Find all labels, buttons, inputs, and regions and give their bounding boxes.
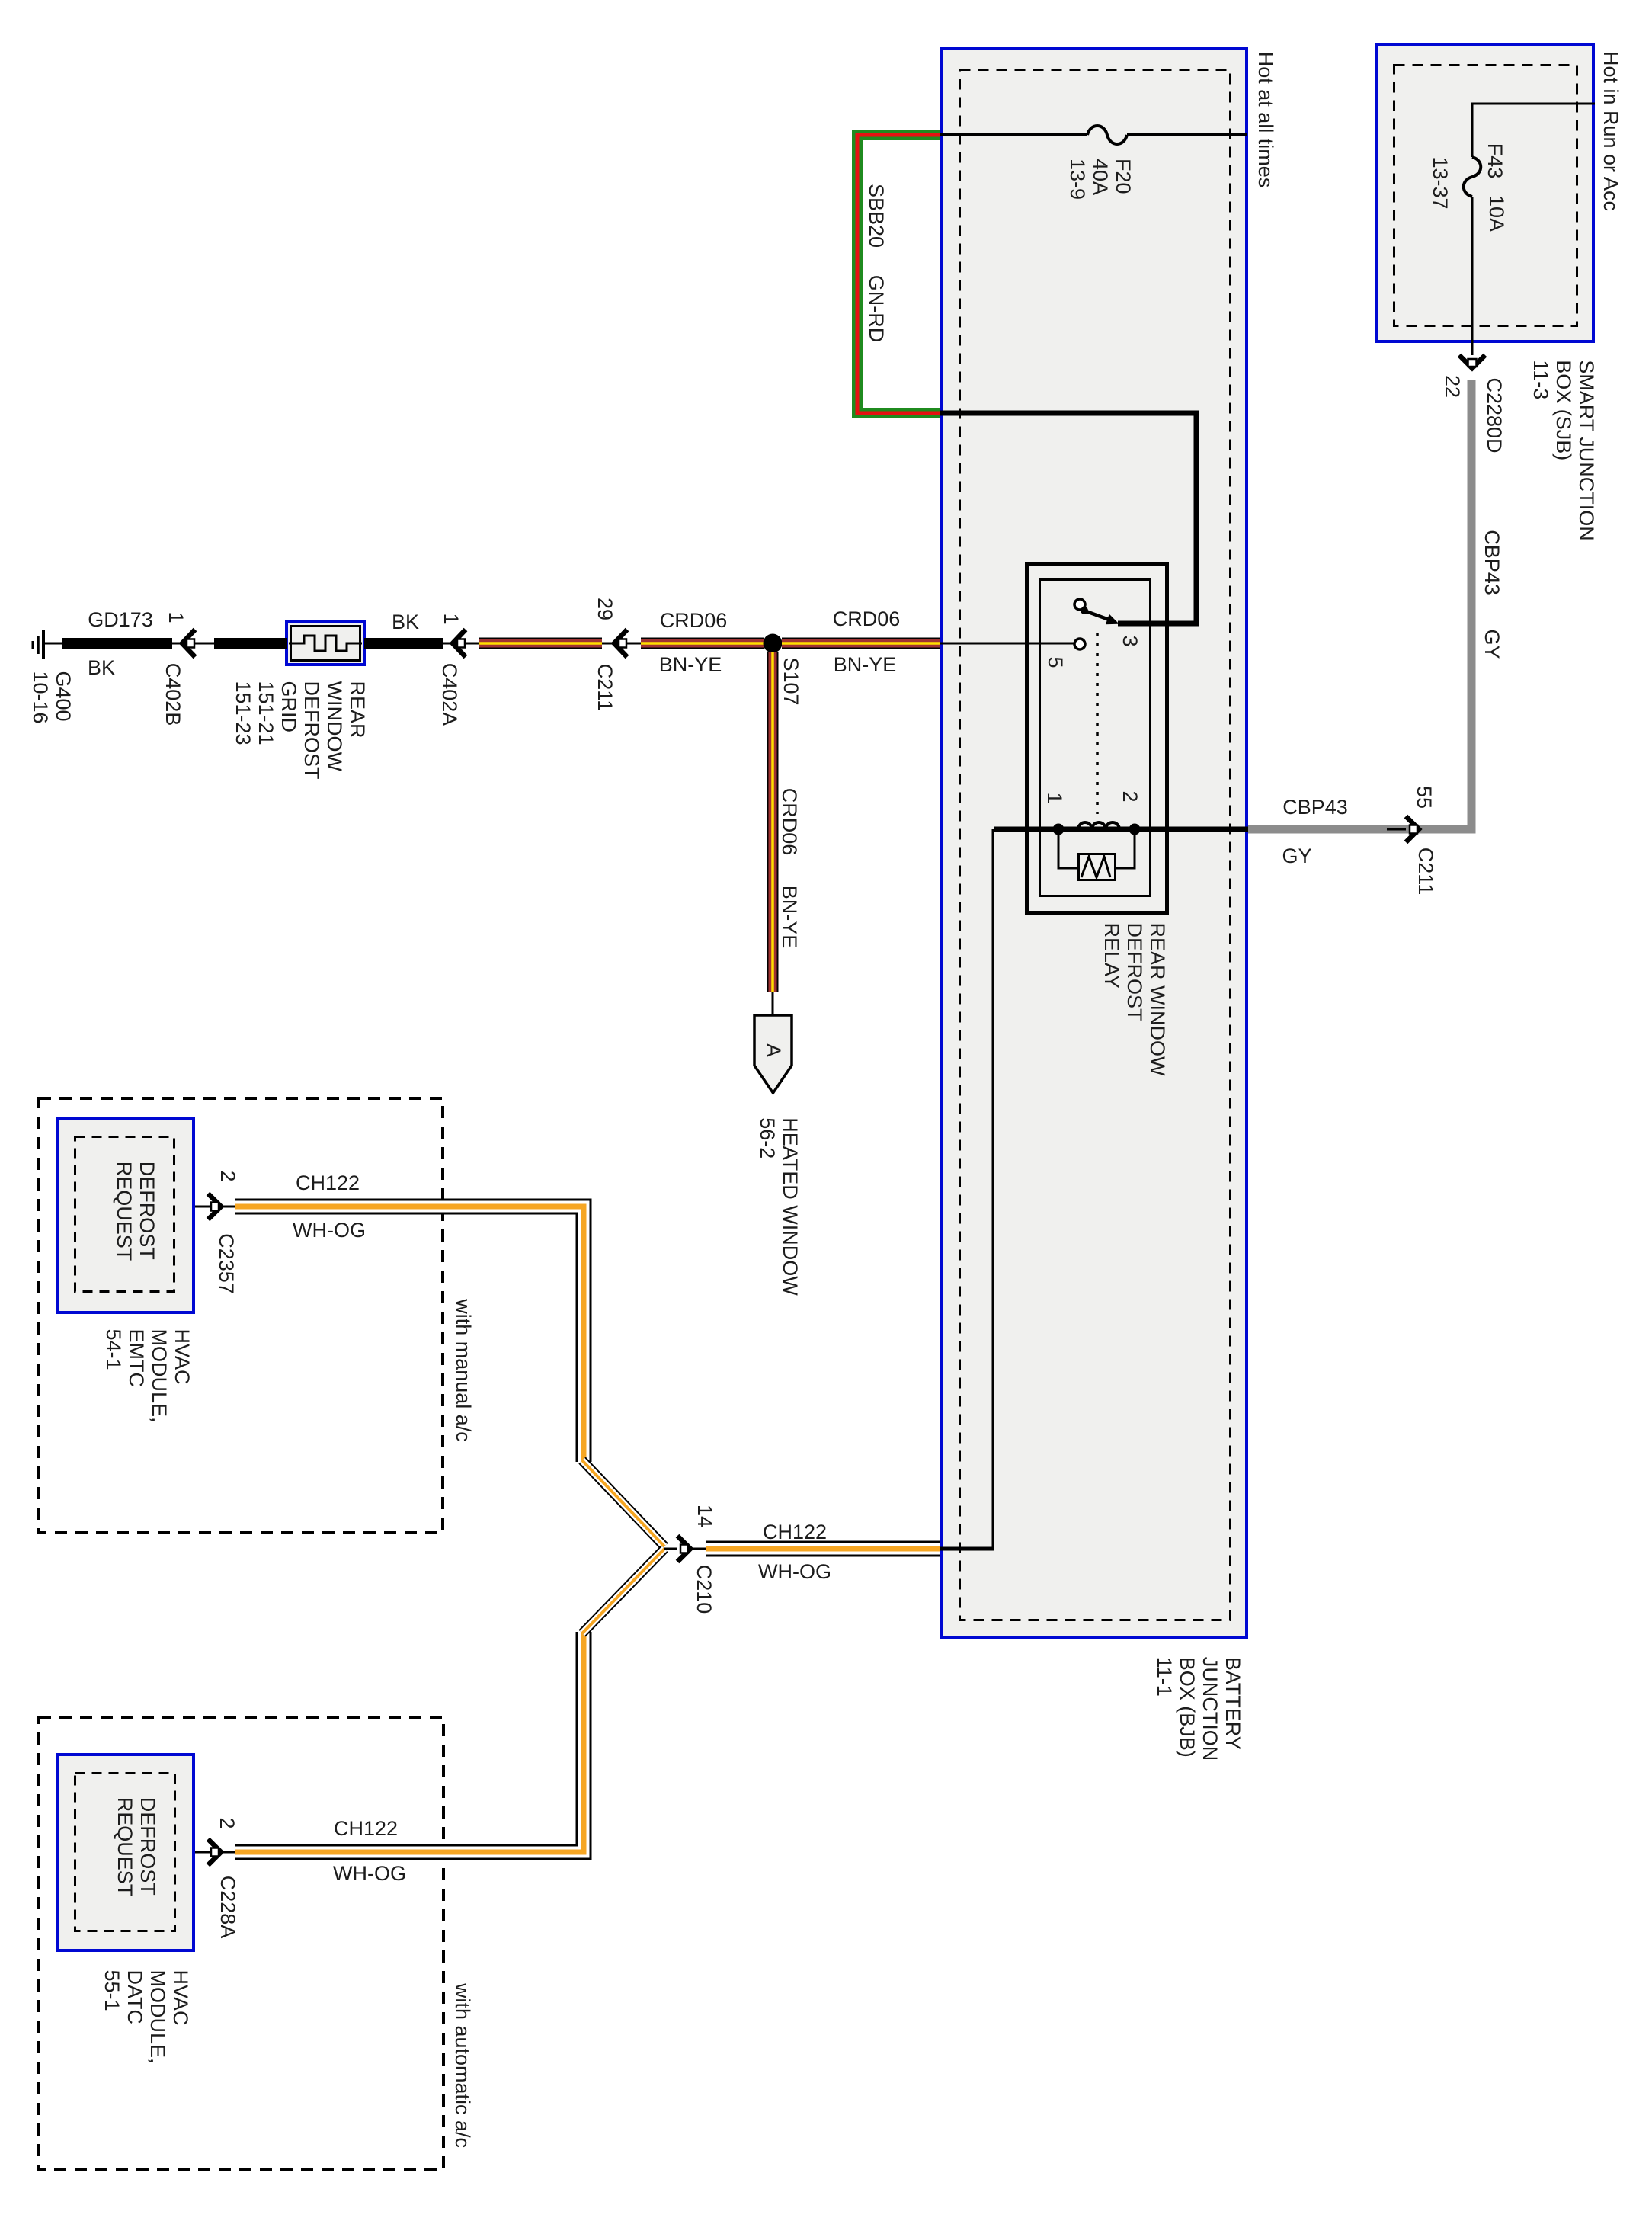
wire CBP43 GY gray from relay pin 2 xyxy=(1248,380,1471,829)
relay coil wire pins 1-2 xyxy=(994,827,1254,832)
label pin 2 xyxy=(1119,790,1141,802)
label WH-OG manual xyxy=(293,1219,366,1242)
label WH-OG automatic xyxy=(333,1862,406,1885)
label pin 2 at C2357 xyxy=(216,1170,239,1181)
label fuse F43 10A xyxy=(1484,143,1506,179)
label REAR WINDOW DEFROST GRID 151-21 151-23 xyxy=(232,681,369,779)
connector C211 pin55 arrow xyxy=(1387,816,1419,842)
label CRD06 segment2 xyxy=(660,609,728,632)
HVAC module DATC box xyxy=(57,1755,194,1950)
SJB inner dashed border xyxy=(1394,66,1577,326)
label REAR WINDOW DEFROST RELAY xyxy=(1100,923,1169,1076)
label with automatic a/c xyxy=(451,1983,474,2148)
connector C2357 arrow xyxy=(195,1194,235,1219)
label CRD06 segment3 xyxy=(833,607,901,630)
heated window A arrow pentagon xyxy=(754,1015,792,1093)
label BK under GD173 xyxy=(88,656,115,679)
wire CRD06 BN-YE segment 1 xyxy=(479,638,602,649)
label pin 2 at C228A xyxy=(216,1817,239,1828)
wire thin to relay pin 5 xyxy=(940,643,1075,645)
relay pin 5 contact xyxy=(1074,639,1085,649)
wire CRD06 BN-YE segment 3 into BJB xyxy=(782,638,940,649)
label Hot in Run or Acc xyxy=(1599,51,1622,211)
label BN-YE segment2 xyxy=(659,653,722,676)
label WH-OG after C210 xyxy=(758,1560,831,1583)
relay coil terminal dots xyxy=(1053,824,1141,835)
fusible link SBB20 GN-RD loop xyxy=(857,135,940,413)
relay economizer resistor xyxy=(1058,829,1135,880)
label C211 xyxy=(594,664,616,712)
connector C228A arrow xyxy=(195,1839,235,1865)
label DEFROST REQUEST DATC xyxy=(114,1797,159,1897)
wire BK segment from grid xyxy=(364,638,443,649)
label fuse F20 40A 13-9 xyxy=(1066,159,1135,200)
relay actuator dotted line xyxy=(1096,633,1099,814)
label pin 29 xyxy=(594,598,616,620)
label BK before grid xyxy=(392,611,419,633)
with automatic a/c dashed enclosure xyxy=(39,1717,443,2170)
relay switch pivot pin 3 side xyxy=(1074,599,1118,624)
connector C402B arrow xyxy=(172,630,214,657)
wire CH122 WH-OG from EMTC xyxy=(235,1207,584,1462)
connector C211 pin29 arrow xyxy=(602,630,641,657)
label CRD06 branch xyxy=(778,788,801,856)
label DEFROST REQUEST EMTC xyxy=(113,1162,158,1261)
label HVAC MODULE DATC 55-1 xyxy=(101,1969,192,2063)
BJB inner dashed border xyxy=(960,70,1231,1620)
wire from SBB20 to relay pin 3 xyxy=(940,413,1196,623)
label C2280D xyxy=(1483,377,1506,453)
label GN-RD xyxy=(865,275,888,343)
label pin 1 at C402A xyxy=(440,613,463,624)
label C211 at 55 xyxy=(1414,848,1437,896)
rear window defrost grid box xyxy=(287,622,364,665)
fuse F20 wire across BJB xyxy=(940,126,1247,144)
connector C210 pin14 arrow xyxy=(664,1536,706,1562)
connector C402A arrow xyxy=(443,630,479,657)
label pin 14 xyxy=(693,1505,716,1527)
label Hot at all times xyxy=(1254,52,1277,188)
grid resistive element symbol xyxy=(289,636,362,651)
label CH122 after C210 xyxy=(763,1521,827,1543)
label pin 1 at C402B xyxy=(165,611,187,623)
battery junction box BJB outline xyxy=(942,49,1247,1637)
label C2357 xyxy=(215,1233,238,1294)
label G400 10-16 xyxy=(29,671,75,723)
label GY vertical xyxy=(1481,629,1503,659)
label GD173 xyxy=(88,608,153,631)
wire BK segment to grid xyxy=(214,638,287,649)
label C228A xyxy=(216,1876,239,1939)
label pin 55 xyxy=(1413,786,1436,809)
label CH122 manual xyxy=(296,1171,360,1194)
label C210 xyxy=(693,1565,716,1614)
label pin 3 xyxy=(1119,635,1141,646)
relay coil bumps xyxy=(1078,822,1119,829)
wire relay pin 1 down and out of BJB xyxy=(940,829,994,1549)
wire CH122 diagonal upper branch xyxy=(582,1460,664,1546)
label pin 1 xyxy=(1043,792,1066,803)
label CBP43 vertical xyxy=(1481,530,1503,595)
relay inner box xyxy=(1040,580,1151,896)
label pin 22 xyxy=(1441,375,1464,398)
label S107 xyxy=(780,657,802,705)
label A in pentagon xyxy=(762,1043,785,1057)
wire CRD06 BN-YE segment 2 xyxy=(641,638,764,649)
label GY horizontal xyxy=(1282,844,1311,867)
wire CH122 WH-OG into BJB xyxy=(706,1541,940,1557)
relay outer case xyxy=(1027,565,1167,913)
label SBB20 xyxy=(865,184,888,248)
wire CH122 WH-OG from DATC xyxy=(235,1632,584,1852)
wire CH122 diagonal lower branch xyxy=(582,1549,664,1633)
label BATTERY JUNCTION BOX (BJB) 11-1 xyxy=(1153,1657,1244,1761)
wire BK segment from ground xyxy=(62,638,172,649)
label 13-37 xyxy=(1429,156,1452,209)
label BN-YE branch xyxy=(778,886,801,949)
label SMART JUNCTION BOX (SJB) 11-3 xyxy=(1529,360,1598,541)
wire CBP43 GY gray from SJB xyxy=(1468,380,1476,829)
label pin 5 xyxy=(1044,656,1067,668)
splice S107 junction dot xyxy=(764,634,783,653)
label HVAC MODULE EMTC 54-1 xyxy=(102,1328,194,1422)
wire CRD06 BN-YE branch to heated window xyxy=(767,652,779,1015)
ground symbol G400 xyxy=(33,630,62,659)
with manual a/c dashed enclosure xyxy=(39,1098,443,1533)
label HEATED WINDOW 56-2 xyxy=(756,1117,802,1295)
label CH122 automatic xyxy=(334,1817,398,1840)
label C402A xyxy=(438,663,461,726)
label with manual a/c xyxy=(452,1299,475,1442)
connector C2280D pin22 arrow xyxy=(1459,355,1485,368)
label CBP43 horizontal xyxy=(1282,796,1348,819)
HVAC module EMTC box xyxy=(57,1118,194,1312)
label C402B xyxy=(162,663,184,726)
label BN-YE segment3 xyxy=(834,653,897,676)
SJB internal wire and fuse F43 xyxy=(1464,104,1595,355)
smart junction box SJB outline xyxy=(1377,45,1593,341)
